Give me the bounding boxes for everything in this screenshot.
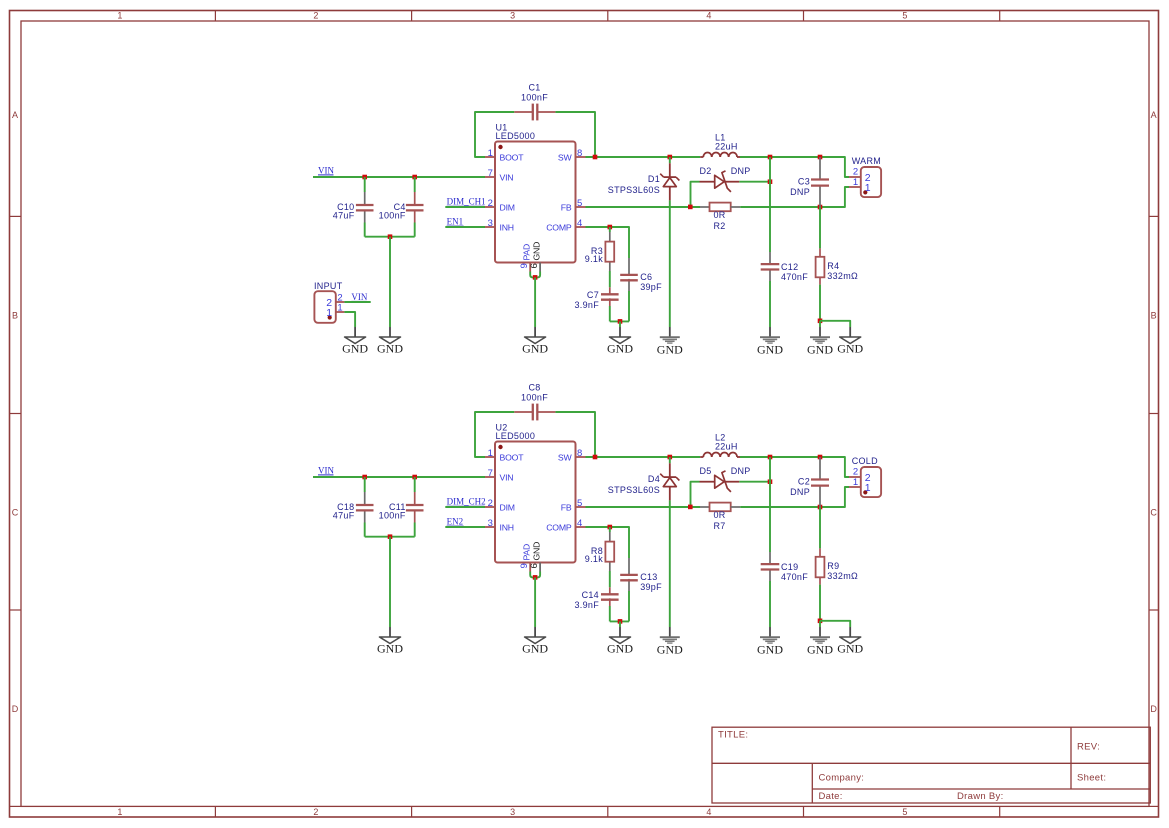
svg-text:3: 3	[510, 807, 515, 817]
svg-text:FB: FB	[561, 203, 572, 213]
junction	[618, 319, 623, 324]
svg-text:332mΩ: 332mΩ	[827, 571, 858, 581]
svg-text:BOOT: BOOT	[500, 153, 525, 163]
svg-text:9.1k: 9.1k	[585, 554, 603, 564]
svg-text:VIN: VIN	[318, 165, 334, 175]
pin 1	[853, 177, 871, 194]
svg-text:GND: GND	[657, 642, 683, 656]
label C7 3.9nF	[574, 290, 599, 310]
pin 8 SW	[558, 448, 586, 462]
svg-text:C19: C19	[781, 562, 798, 572]
diode D5 DNP	[700, 471, 740, 492]
label R2 0R	[713, 210, 725, 231]
wire	[609, 527, 611, 532]
svg-text:VIN: VIN	[500, 173, 514, 183]
svg-text:D4: D4	[648, 474, 660, 484]
svg-text:7: 7	[488, 168, 494, 179]
wire	[344, 312, 355, 327]
capacitor C1	[514, 104, 555, 121]
ground GND	[522, 327, 548, 356]
pin 4 COMP	[546, 218, 585, 232]
wire	[740, 487, 849, 507]
svg-text:4: 4	[577, 218, 583, 229]
wire	[586, 156, 701, 158]
capacitor C19	[761, 552, 780, 581]
svg-text:9.1k: 9.1k	[585, 254, 603, 264]
wire	[534, 577, 536, 627]
svg-text:1: 1	[488, 448, 494, 459]
title block	[712, 727, 1150, 803]
wire	[669, 457, 671, 463]
wire	[740, 187, 849, 207]
svg-text:100nF: 100nF	[379, 211, 406, 221]
svg-text:D1: D1	[648, 174, 660, 184]
wire	[586, 227, 630, 258]
wire	[414, 523, 416, 537]
junction	[818, 455, 823, 460]
svg-text:R9: R9	[827, 561, 839, 571]
svg-text:GND: GND	[837, 342, 863, 356]
capacitor C4	[406, 192, 424, 223]
diode D2 DNP	[700, 171, 740, 192]
wire	[555, 412, 595, 457]
wire	[819, 321, 821, 327]
svg-text:100nF: 100nF	[521, 392, 548, 402]
ground GND	[377, 327, 403, 356]
junction	[533, 275, 538, 280]
svg-text:LED5000: LED5000	[496, 431, 536, 441]
resistor R2 0R	[700, 203, 740, 212]
svg-text:GND: GND	[607, 642, 633, 656]
svg-text:1: 1	[865, 182, 871, 194]
wire	[740, 157, 849, 177]
wire	[819, 207, 821, 248]
svg-text:100nF: 100nF	[379, 511, 406, 521]
pin 1	[853, 477, 871, 494]
svg-text:5: 5	[902, 11, 907, 21]
label D1 STPS3L60S	[608, 174, 660, 195]
svg-text:1: 1	[853, 477, 859, 488]
svg-text:Date:: Date:	[819, 791, 843, 802]
capacitor C10	[356, 192, 374, 223]
svg-text:GND: GND	[522, 342, 548, 356]
wire	[609, 271, 611, 287]
svg-text:8: 8	[577, 148, 583, 159]
wire	[364, 477, 366, 492]
svg-text:GND: GND	[757, 642, 783, 656]
svg-text:PAD: PAD	[522, 244, 532, 261]
svg-text:6: 6	[529, 563, 540, 569]
label R3 9.1k	[585, 246, 603, 264]
label C19 470nF	[781, 562, 808, 582]
ground GND	[607, 627, 633, 656]
svg-text:STPS3L60S: STPS3L60S	[608, 485, 660, 495]
wire	[610, 320, 629, 322]
svg-text:C2: C2	[798, 476, 810, 486]
svg-text:C6: C6	[640, 272, 652, 282]
svg-text:2: 2	[313, 807, 318, 817]
wire	[313, 176, 485, 178]
label C3 DNP	[790, 176, 810, 197]
svg-text:SW: SW	[558, 153, 573, 163]
wire	[555, 112, 595, 157]
svg-text:GND: GND	[532, 542, 542, 561]
pin 6 GND	[529, 542, 542, 572]
svg-text:TITLE:: TITLE:	[718, 730, 748, 741]
wire	[389, 237, 391, 327]
svg-text:PAD: PAD	[522, 544, 532, 561]
svg-text:R2: R2	[713, 221, 725, 231]
svg-text:332mΩ: 332mΩ	[827, 271, 858, 281]
wire	[475, 412, 514, 457]
label D5 DNP	[700, 466, 751, 476]
wire	[819, 585, 821, 621]
svg-text:39pF: 39pF	[640, 282, 662, 292]
svg-text:C: C	[1150, 508, 1157, 518]
wire	[313, 476, 485, 478]
wire	[609, 306, 611, 321]
svg-text:COLD: COLD	[852, 456, 878, 466]
svg-text:0R: 0R	[713, 510, 725, 520]
svg-text:DNP: DNP	[731, 466, 751, 476]
svg-text:5: 5	[577, 198, 583, 209]
wire	[820, 321, 850, 327]
pin 5 FB	[561, 498, 586, 512]
svg-text:INH: INH	[500, 223, 514, 233]
svg-text:WARM: WARM	[852, 156, 881, 166]
pin 1 BOOT	[485, 448, 524, 462]
net label EN1	[447, 217, 464, 227]
svg-text:6: 6	[529, 263, 540, 269]
wire	[414, 177, 416, 192]
svg-text:REV:: REV:	[1077, 741, 1100, 752]
svg-text:R4: R4	[827, 261, 839, 271]
ground GND	[807, 627, 833, 656]
ground GND	[837, 627, 863, 656]
junction	[362, 175, 367, 180]
svg-text:1: 1	[326, 307, 332, 319]
svg-text:22uH: 22uH	[715, 442, 738, 452]
wire	[364, 177, 366, 192]
junction	[618, 619, 623, 624]
net label DIM_CH1	[447, 197, 486, 207]
svg-text:GND: GND	[607, 342, 633, 356]
ground GND	[607, 327, 633, 356]
junction	[688, 205, 693, 210]
resistor R7 0R	[700, 503, 740, 512]
connector INPUT	[314, 291, 344, 323]
resistor R3	[605, 242, 614, 262]
capacitor C14	[601, 587, 619, 606]
junction	[362, 475, 367, 480]
capacitor C12	[761, 252, 780, 281]
label C10 47uF	[333, 202, 355, 221]
inductor L1	[700, 152, 740, 157]
wire	[475, 112, 514, 157]
svg-text:3.9nF: 3.9nF	[574, 600, 599, 610]
wire	[739, 481, 770, 483]
label C14 3.9nF	[574, 590, 599, 610]
label C1 100nF	[521, 83, 548, 103]
svg-text:DIM_CH2: DIM_CH2	[447, 497, 486, 507]
diode D1 STPS3L60S	[660, 163, 679, 200]
svg-text:5: 5	[577, 498, 583, 509]
wire	[445, 226, 485, 228]
label C13 39pF	[640, 572, 662, 592]
junction	[768, 479, 773, 484]
op-amp U2 LED5000 regulator	[495, 442, 576, 563]
label R4 332m&#937;	[827, 261, 858, 281]
wire	[414, 223, 416, 237]
resistor R9	[816, 557, 825, 578]
label C6 39pF	[640, 272, 662, 292]
svg-text:2: 2	[313, 11, 318, 21]
svg-text:1: 1	[117, 11, 122, 21]
label C4 100nF	[379, 202, 406, 221]
svg-text:C3: C3	[798, 176, 810, 186]
ground GND	[657, 627, 683, 656]
capacitor C2	[811, 457, 829, 507]
svg-text:5: 5	[902, 807, 907, 817]
wire	[740, 457, 849, 477]
wire	[819, 285, 821, 321]
capacitor C18	[356, 492, 374, 523]
svg-text:100nF: 100nF	[521, 92, 548, 102]
label L1 22uH	[715, 132, 738, 151]
inductor L2	[700, 452, 740, 457]
ground GND	[837, 327, 863, 356]
pin 7 VIN	[485, 468, 513, 482]
wire	[619, 321, 621, 327]
frame column numbers	[117, 11, 907, 817]
label U1 LED5000	[496, 123, 536, 141]
pin 9 PAD	[519, 244, 532, 272]
svg-text:VIN: VIN	[318, 465, 334, 475]
net label VIN	[351, 292, 367, 302]
pin 6 GND	[529, 242, 542, 272]
svg-text:Sheet:: Sheet:	[1077, 773, 1106, 784]
lead	[819, 548, 821, 556]
svg-text:2: 2	[853, 166, 859, 177]
svg-text:GND: GND	[657, 342, 683, 356]
label C12 470nF	[781, 262, 808, 282]
pin 9 PAD	[519, 544, 532, 572]
svg-text:DIM: DIM	[500, 503, 515, 513]
wire	[691, 482, 700, 507]
svg-text:3: 3	[488, 218, 494, 229]
svg-text:DNP: DNP	[790, 487, 810, 497]
svg-text:0R: 0R	[713, 210, 725, 220]
wire	[820, 621, 850, 627]
junction	[593, 155, 598, 160]
capacitor C8	[514, 404, 555, 421]
svg-text:INPUT: INPUT	[314, 281, 343, 291]
junction	[668, 455, 673, 460]
capacitor C13	[620, 558, 638, 591]
wire	[739, 181, 770, 183]
wire	[769, 457, 771, 552]
ground GND	[522, 627, 548, 656]
svg-text:1: 1	[117, 807, 122, 817]
svg-text:4: 4	[577, 518, 583, 529]
junction	[818, 619, 823, 624]
svg-text:22uH: 22uH	[715, 142, 738, 152]
wire	[769, 157, 771, 252]
wire	[819, 507, 821, 548]
junction	[533, 575, 538, 580]
wire	[610, 620, 629, 622]
label C8 100nF	[521, 383, 548, 403]
wire	[445, 526, 485, 528]
wire	[344, 301, 370, 303]
diode D4 STPS3L60S	[660, 463, 679, 500]
svg-text:D: D	[1150, 704, 1157, 714]
wire	[609, 606, 611, 621]
capacitor C3	[811, 157, 829, 207]
junction	[818, 205, 823, 210]
wire	[669, 500, 671, 627]
svg-text:47uF: 47uF	[333, 211, 355, 221]
pin 4 COMP	[546, 518, 585, 532]
ground GND	[342, 327, 368, 356]
svg-text:B: B	[12, 311, 18, 321]
label C2 DNP	[790, 476, 810, 497]
junction	[768, 455, 773, 460]
svg-text:STPS3L60S: STPS3L60S	[608, 185, 660, 195]
wire	[445, 206, 485, 208]
pin 8 SW	[558, 148, 586, 162]
svg-text:D: D	[12, 704, 19, 714]
svg-text:3.9nF: 3.9nF	[574, 300, 599, 310]
junction	[818, 155, 823, 160]
junction	[768, 155, 773, 160]
svg-text:C7: C7	[587, 290, 599, 300]
svg-text:DIM_CH1: DIM_CH1	[447, 197, 486, 207]
frame row ticks	[10, 216, 1159, 806]
pin 2 DIM	[485, 498, 515, 512]
junction	[593, 455, 598, 460]
lead	[609, 232, 611, 242]
pin 1	[326, 303, 343, 320]
net label EN2	[447, 517, 464, 527]
wire	[586, 456, 701, 458]
svg-text:GND: GND	[807, 342, 833, 356]
svg-text:Company:: Company:	[819, 773, 865, 784]
junction	[768, 179, 773, 184]
svg-text:1: 1	[853, 177, 859, 188]
svg-text:1: 1	[865, 482, 871, 494]
svg-text:8: 8	[577, 448, 583, 459]
svg-text:GND: GND	[807, 642, 833, 656]
wire	[628, 591, 630, 621]
wire	[534, 277, 536, 327]
wire	[586, 527, 630, 558]
svg-text:D2: D2	[700, 166, 712, 176]
wire	[769, 281, 771, 327]
svg-text:GND: GND	[522, 642, 548, 656]
svg-text:COMP: COMP	[546, 523, 572, 533]
wire	[691, 182, 700, 207]
svg-text:VIN: VIN	[500, 473, 514, 483]
wire	[628, 291, 630, 321]
svg-text:C14: C14	[582, 590, 599, 600]
wire	[769, 581, 771, 627]
pin 7 VIN	[485, 168, 513, 182]
svg-text:C13: C13	[640, 572, 657, 582]
capacitor C11	[406, 492, 424, 523]
junction	[688, 505, 693, 510]
wire	[364, 523, 366, 537]
pin 5 FB	[561, 198, 586, 212]
wire	[819, 621, 821, 627]
resistor R4	[816, 257, 825, 278]
wire	[365, 536, 415, 538]
junction	[388, 234, 393, 239]
label R9 332m&#937;	[827, 561, 858, 581]
pin 2	[853, 466, 871, 484]
wire	[530, 572, 540, 578]
label L2 22uH	[715, 432, 738, 451]
wire	[609, 571, 611, 587]
svg-text:SW: SW	[558, 453, 573, 463]
label D2 DNP	[700, 166, 751, 176]
svg-text:470nF: 470nF	[781, 572, 808, 582]
wire	[619, 621, 621, 627]
svg-text:GND: GND	[757, 342, 783, 356]
svg-text:C12: C12	[781, 262, 798, 272]
svg-text:GND: GND	[342, 342, 368, 356]
resistor R8	[605, 542, 614, 562]
ground GND	[377, 627, 403, 656]
wire	[414, 477, 416, 492]
pin 2	[853, 166, 871, 184]
ground GND	[757, 327, 783, 356]
svg-text:GND: GND	[837, 642, 863, 656]
svg-text:FB: FB	[561, 503, 572, 513]
svg-text:2: 2	[853, 466, 859, 477]
svg-text:DIM: DIM	[500, 203, 515, 213]
connector COLD	[849, 467, 881, 497]
pin 2	[326, 292, 343, 309]
svg-text:C1: C1	[528, 83, 540, 93]
svg-text:1: 1	[337, 303, 343, 314]
wire	[365, 236, 415, 238]
pin 2 DIM	[485, 198, 515, 212]
junction	[608, 525, 613, 530]
net label VIN	[318, 465, 334, 475]
ground GND	[657, 327, 683, 356]
svg-text:2: 2	[488, 198, 494, 209]
svg-text:2: 2	[488, 498, 494, 509]
svg-text:39pF: 39pF	[640, 582, 662, 592]
svg-text:47uF: 47uF	[333, 511, 355, 521]
op-amp U1 LED5000 regulator	[495, 142, 576, 263]
lead	[819, 248, 821, 256]
pin 3 INH	[485, 218, 514, 232]
wire	[389, 537, 391, 627]
svg-text:EN2: EN2	[447, 517, 464, 527]
svg-text:D5: D5	[700, 466, 712, 476]
svg-text:Drawn By:: Drawn By:	[957, 791, 1004, 802]
ground GND	[757, 627, 783, 656]
svg-text:7: 7	[488, 468, 494, 479]
svg-text:3: 3	[488, 518, 494, 529]
svg-text:C: C	[12, 508, 19, 518]
label C18 47uF	[333, 502, 355, 521]
wire	[669, 200, 671, 327]
capacitor C6	[620, 258, 638, 291]
svg-text:B: B	[1151, 311, 1157, 321]
